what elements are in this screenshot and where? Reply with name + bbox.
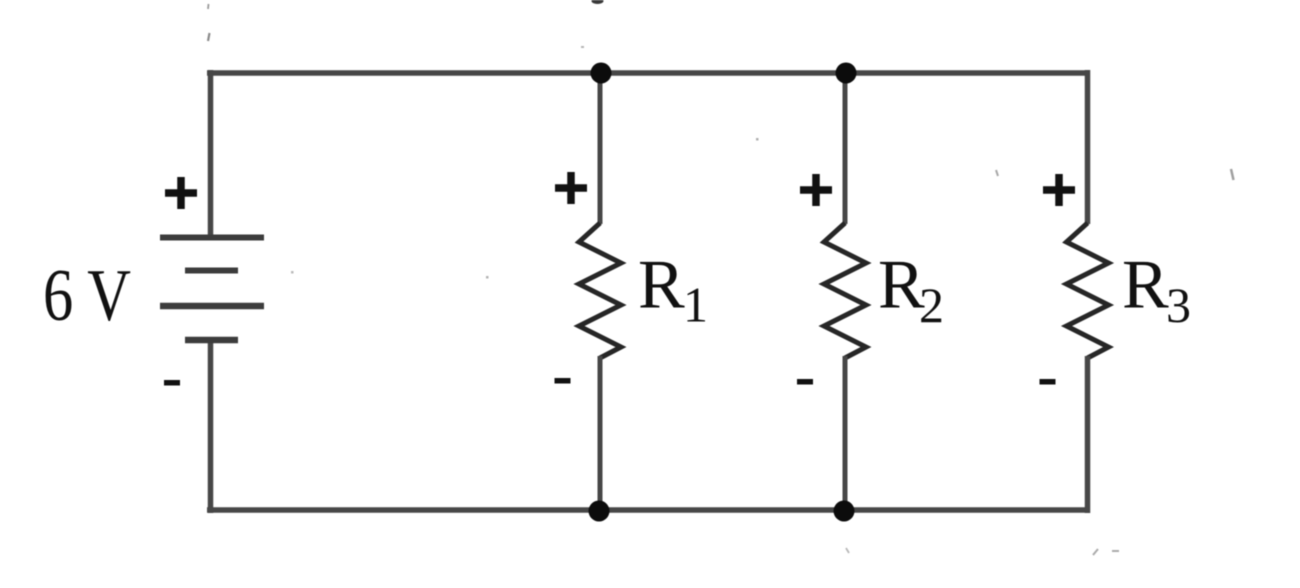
wire left vertical upper (battery + lead) <box>208 70 214 238</box>
battery V1 plate short bottom <box>185 337 238 344</box>
stray speck below bottom dot R2 <box>846 548 849 553</box>
node junction dot bottom R2 <box>834 501 855 522</box>
stray mark top edge <box>592 0 604 4</box>
wire R2 branch upper <box>843 70 848 224</box>
resistor R3 zigzag <box>1067 223 1109 358</box>
wire right vertical upper (R3 branch) <box>1085 70 1091 224</box>
stray speck left of R2 <box>756 138 759 141</box>
resistor R1 zigzag <box>579 223 621 358</box>
svg-text:1: 1 <box>683 277 708 333</box>
wire R1 branch lower <box>598 356 603 513</box>
svg-text:R: R <box>1122 247 1169 324</box>
svg-text:R: R <box>878 247 925 324</box>
svg-text:2: 2 <box>919 277 944 333</box>
node junction dot bottom R1 <box>589 501 610 522</box>
wire R1 branch upper <box>598 70 603 224</box>
battery plus sign <box>165 177 197 209</box>
svg-text:3: 3 <box>1166 277 1191 333</box>
R1 minus sign <box>555 378 571 384</box>
battery V1 plate long lower <box>160 303 264 310</box>
node junction dot top R1 <box>591 63 612 84</box>
wire bottom horizontal <box>207 507 1090 513</box>
svg-text:R: R <box>638 247 685 324</box>
R2 plus sign <box>800 174 832 206</box>
R1 plus sign <box>555 172 587 204</box>
stray speck near top middle <box>581 46 584 48</box>
node junction dot top R2 <box>836 63 857 84</box>
R2 minus sign <box>797 379 813 385</box>
stray tick above top-left corner <box>208 33 210 41</box>
stray speck left of R3 plus <box>996 170 998 176</box>
R3 minus sign <box>1040 379 1056 385</box>
battery V1 plate long top <box>160 235 264 241</box>
battery minus sign <box>164 380 180 386</box>
wire R2 branch lower <box>843 356 848 513</box>
wire right vertical lower (R3 branch) <box>1085 356 1091 513</box>
stray speck mid left <box>291 271 294 274</box>
wire top horizontal <box>207 70 1090 76</box>
battery V1 plate short <box>185 268 238 274</box>
R3 plus sign <box>1043 174 1075 206</box>
stray quote right of R3 <box>1231 169 1234 180</box>
stray marks below bottom wire right <box>1093 549 1119 555</box>
svg-text:6 V: 6 V <box>43 255 131 337</box>
resistor R2 zigzag <box>824 223 866 358</box>
wire left vertical lower (battery - lead) <box>208 340 214 513</box>
stray speck mid center <box>486 276 489 279</box>
stray tick higher above top-left corner <box>207 4 210 9</box>
